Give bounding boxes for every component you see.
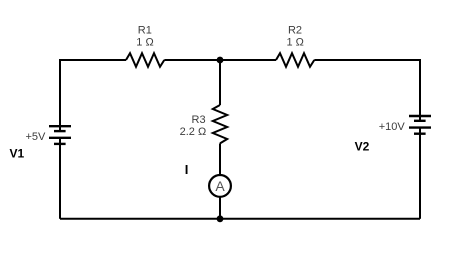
wire: R2 to top-right corner down to V2 positive plate <box>314 60 420 121</box>
wire: V2 negative terminal to bottom-right corner <box>419 128 421 219</box>
resistor R2 <box>276 53 314 67</box>
svg-text:+10V: +10V <box>379 121 406 133</box>
wire: bottom rail <box>60 218 420 220</box>
svg-text:1 Ω: 1 Ω <box>136 36 153 48</box>
svg-text:R3: R3 <box>192 114 206 126</box>
wire: top junction node to R3 <box>219 60 221 105</box>
battery V2 <box>409 116 431 134</box>
svg-text:A: A <box>215 178 225 194</box>
svg-text:R2: R2 <box>288 24 302 36</box>
svg-text:V1: V1 <box>10 146 25 160</box>
wire: top rail from V1 top-left corner to R1, incl. left vertical down to V1 positive plate <box>60 60 126 131</box>
svg-text:2.2 Ω: 2.2 Ω <box>180 126 207 138</box>
wire: R1 to top junction node <box>164 59 220 61</box>
wire: R3 to ammeter <box>219 143 221 175</box>
wire: top junction node to R2 <box>220 59 276 61</box>
battery V1 <box>49 126 71 144</box>
ammeter AM1 <box>209 175 231 197</box>
svg-text:I: I <box>185 162 189 177</box>
svg-text:R1: R1 <box>138 24 152 36</box>
resistor R1 <box>126 53 164 67</box>
svg-text:1 Ω: 1 Ω <box>286 36 303 48</box>
wire: V1 negative terminal to bottom-left corner <box>59 138 61 219</box>
junction: top node <box>217 57 224 64</box>
svg-text:V2: V2 <box>355 139 370 153</box>
wire: ammeter to bottom junction node <box>219 197 221 219</box>
junction: bottom node <box>217 215 224 222</box>
resistor R3 <box>213 105 227 143</box>
svg-text:+5V: +5V <box>26 131 47 143</box>
